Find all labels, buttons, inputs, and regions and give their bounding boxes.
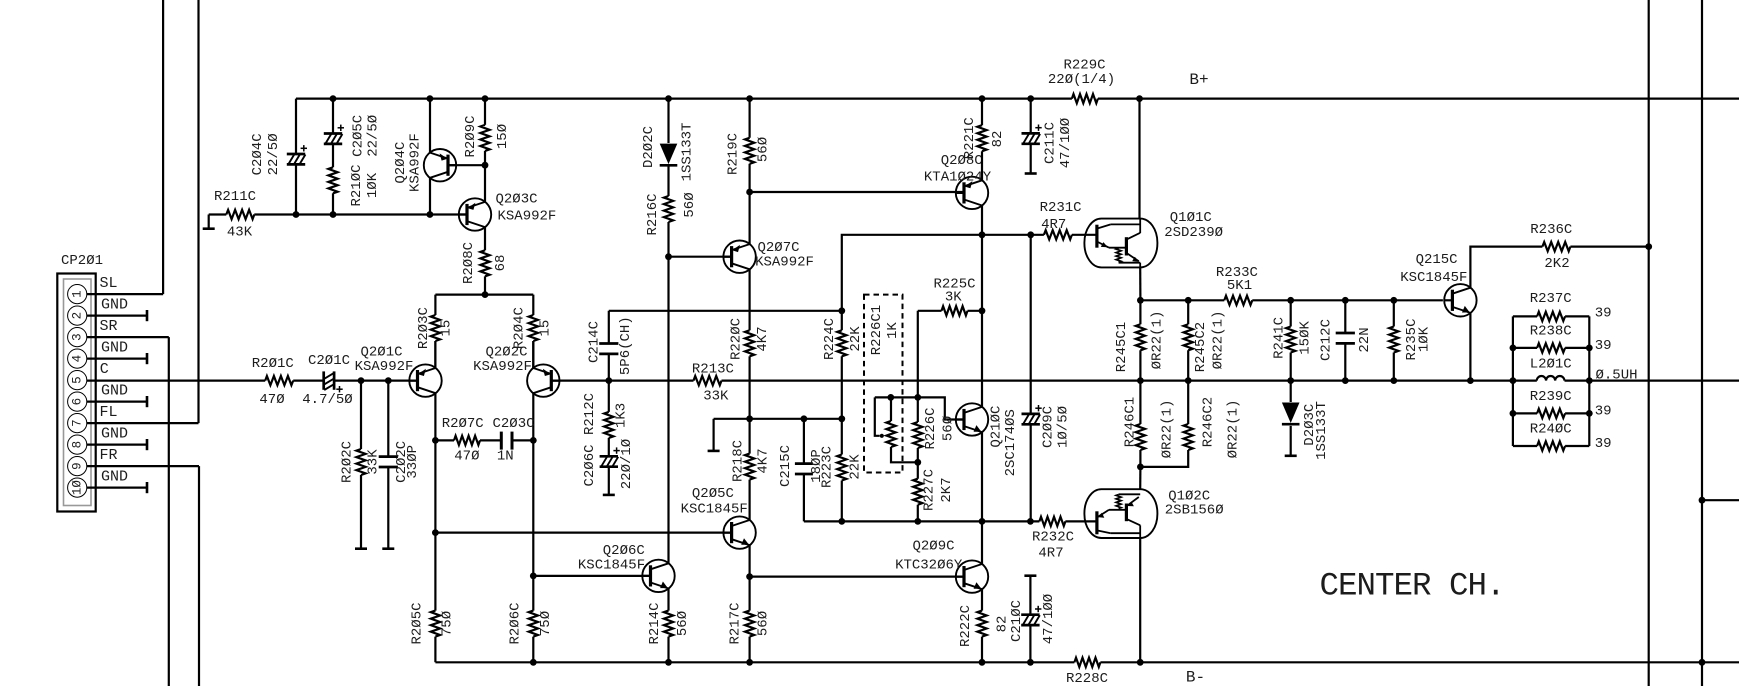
pin 3 label SR bbox=[99, 318, 117, 335]
svg-text:Q2Ø3C: Q2Ø3C bbox=[495, 192, 537, 208]
svg-text:R218C: R218C bbox=[731, 440, 747, 482]
svg-text:C215C: C215C bbox=[778, 445, 794, 487]
wire pin5 C input bbox=[87, 380, 265, 382]
node Q206C base bbox=[530, 573, 537, 580]
node bus Q204C bbox=[427, 95, 434, 102]
wire Q210C emitter bbox=[981, 432, 983, 521]
svg-text:R232C: R232C bbox=[1032, 530, 1074, 546]
node Q208C collector row bbox=[979, 231, 986, 238]
resistor R204C bbox=[512, 295, 554, 369]
wire Q208C collector to R225C bbox=[981, 235, 983, 311]
svg-text:R231C: R231C bbox=[1040, 200, 1082, 216]
resistor R210C bbox=[328, 164, 381, 206]
capacitor C212C bbox=[1318, 300, 1373, 380]
node Q102C emitter bbox=[1137, 464, 1144, 471]
wire B+ top bus bbox=[296, 97, 1739, 99]
resistor R227C bbox=[913, 462, 955, 521]
node rail R217C bbox=[746, 659, 753, 666]
wire C215C R223C top bbox=[750, 418, 842, 420]
wire C214C top bbox=[609, 310, 842, 312]
svg-text:R223C: R223C bbox=[819, 446, 835, 488]
svg-text:R211C: R211C bbox=[214, 189, 256, 205]
node C215C top bbox=[801, 415, 808, 422]
node rail right bbox=[1699, 659, 1706, 666]
svg-text:C2Ø9C: C2Ø9C bbox=[1041, 406, 1057, 448]
wire right vertical 2 bbox=[1701, 0, 1703, 686]
capacitor C206C bbox=[582, 439, 635, 495]
node network right R238C bbox=[1586, 345, 1593, 352]
node C214C wire R224C bbox=[838, 307, 845, 314]
resistor R216C bbox=[645, 166, 698, 257]
trimmer R226C1 box bbox=[864, 295, 903, 473]
node rail R214C bbox=[665, 659, 672, 666]
svg-text:R214C: R214C bbox=[647, 602, 663, 644]
resistor R214C bbox=[647, 588, 691, 662]
svg-text:R213C: R213C bbox=[692, 361, 734, 377]
wire pin3 SR to vertical bbox=[87, 336, 169, 338]
svg-text:8: 8 bbox=[71, 441, 85, 449]
svg-text:GND: GND bbox=[101, 340, 128, 357]
svg-text:33ØP: 33ØP bbox=[405, 445, 421, 479]
wire R207C to C203C bbox=[480, 439, 501, 441]
resistor R222C bbox=[958, 589, 1010, 662]
svg-text:KTC32Ø6Y: KTC32Ø6Y bbox=[895, 557, 963, 573]
svg-text:39: 39 bbox=[1595, 306, 1612, 322]
wire Q204C emitter bbox=[429, 99, 431, 153]
capacitor C209C bbox=[1022, 235, 1072, 522]
capacitor C204C bbox=[250, 133, 307, 175]
capacitor C205C bbox=[324, 115, 382, 157]
svg-text:2K7: 2K7 bbox=[939, 477, 955, 502]
svg-text:KSA992F: KSA992F bbox=[355, 359, 414, 375]
resistor R203C bbox=[416, 295, 455, 369]
svg-text:68: 68 bbox=[493, 255, 509, 272]
svg-text:1K3: 1K3 bbox=[614, 403, 630, 428]
wire Q206C collector bbox=[667, 257, 669, 564]
svg-text:56Ø: 56Ø bbox=[941, 416, 957, 441]
svg-text:ØR22(1): ØR22(1) bbox=[1210, 311, 1226, 370]
svg-text:47/1ØØ: 47/1ØØ bbox=[1041, 594, 1057, 644]
node R219C bottom bbox=[746, 189, 753, 196]
svg-text:15: 15 bbox=[439, 320, 455, 337]
transistor Q209C bbox=[895, 539, 988, 593]
connector CP201 body bbox=[57, 274, 95, 512]
wire network left vertical bbox=[1512, 316, 1514, 446]
svg-text:Q215C: Q215C bbox=[1416, 252, 1458, 268]
connector CP201 label bbox=[61, 253, 103, 269]
wire Q202C emitter bbox=[532, 393, 534, 440]
svg-text:5: 5 bbox=[71, 376, 85, 384]
node rail Q102C bbox=[1137, 659, 1144, 666]
node R245C2 top bbox=[1185, 297, 1192, 304]
transistor Q201C bbox=[355, 345, 442, 397]
capacitor C211C bbox=[1022, 99, 1075, 174]
svg-text:C21ØC: C21ØC bbox=[1009, 600, 1025, 642]
resistor R202C bbox=[339, 381, 381, 549]
svg-text:1K: 1K bbox=[885, 322, 901, 339]
svg-text:KSC1845F: KSC1845F bbox=[578, 557, 645, 573]
node R211C row C204C bbox=[293, 211, 300, 218]
svg-text:KSC1845F: KSC1845F bbox=[1400, 270, 1467, 286]
svg-text:GND: GND bbox=[101, 297, 128, 314]
svg-text:4R7: 4R7 bbox=[1041, 217, 1066, 233]
svg-text:SL: SL bbox=[99, 275, 117, 292]
transistor Q207C bbox=[723, 240, 814, 273]
ground stub near Q205C bbox=[708, 419, 720, 451]
svg-text:R22ØC: R22ØC bbox=[729, 318, 745, 360]
pin 3 bbox=[68, 328, 87, 347]
resistor R206C bbox=[508, 440, 555, 662]
wire Q205C emitter to Q209C base bbox=[750, 575, 964, 577]
transistor Q210C bbox=[956, 403, 1019, 476]
node bus D202C bbox=[665, 95, 672, 102]
wire R225C left drop bbox=[917, 311, 919, 398]
pin 10 bbox=[68, 478, 87, 497]
inductor L201C bbox=[1530, 356, 1638, 383]
node R207C left bbox=[432, 437, 439, 444]
node right stub bbox=[1699, 497, 1706, 504]
resistor R209C bbox=[463, 99, 511, 166]
svg-text:R217C: R217C bbox=[728, 602, 744, 644]
node rail R222C bbox=[979, 659, 986, 666]
svg-text:C: C bbox=[100, 361, 109, 378]
svg-text:47Ø: 47Ø bbox=[259, 392, 284, 408]
wire pin10 GND stub bbox=[87, 482, 147, 493]
svg-text:CENTER CH.: CENTER CH. bbox=[1319, 568, 1504, 605]
svg-text:7: 7 bbox=[71, 419, 85, 427]
svg-text:R228C: R228C bbox=[1066, 671, 1108, 686]
wire Q207C base bbox=[669, 256, 732, 258]
resistor R223C bbox=[819, 419, 863, 522]
svg-text:R2Ø1C: R2Ø1C bbox=[252, 356, 294, 372]
capacitor C210C bbox=[1009, 576, 1057, 663]
wire Q205C emitter bbox=[748, 545, 750, 576]
wire Q204C base bbox=[448, 164, 485, 166]
wire FL vertical bbox=[197, 0, 199, 423]
svg-text:56Ø: 56Ø bbox=[756, 611, 772, 636]
svg-text:R216C: R216C bbox=[645, 193, 661, 235]
node rail C212C bbox=[1342, 377, 1349, 384]
node R225C right bbox=[979, 307, 986, 314]
svg-text:22K: 22K bbox=[848, 326, 864, 352]
node rail Q215C bbox=[1467, 377, 1474, 384]
trimmer R226C1 bbox=[869, 305, 918, 463]
svg-text:4.7/5Ø: 4.7/5Ø bbox=[302, 392, 352, 408]
svg-text:82: 82 bbox=[990, 131, 1006, 148]
wire R218C top bbox=[714, 418, 750, 420]
svg-text:22K: 22K bbox=[848, 454, 864, 480]
svg-text:FL: FL bbox=[99, 404, 117, 421]
svg-text:GND: GND bbox=[101, 426, 128, 443]
resistor R238C bbox=[1513, 324, 1612, 354]
node bus R221C bbox=[979, 95, 986, 102]
wire R211C row bbox=[209, 213, 468, 215]
wire pin7 FL to vertical bbox=[87, 422, 199, 424]
wire R203C R204C top row bbox=[435, 294, 533, 296]
capacitor C214C bbox=[587, 311, 634, 381]
svg-text:22/5Ø: 22/5Ø bbox=[266, 133, 282, 175]
wire R219C to Q208C base bbox=[750, 191, 964, 193]
svg-text:R221C: R221C bbox=[962, 117, 978, 159]
svg-text:4K7: 4K7 bbox=[756, 448, 772, 473]
wire VAS to driver bbox=[842, 235, 1097, 311]
node bus R209C bbox=[482, 95, 489, 102]
wire pin8 GND stub bbox=[87, 439, 147, 450]
svg-text:2K2: 2K2 bbox=[1544, 256, 1569, 272]
wire Q209C collector bbox=[981, 521, 983, 564]
resistor R246C1 bbox=[1122, 381, 1175, 467]
pin 6 bbox=[68, 392, 87, 411]
wire network right vertical bbox=[1588, 316, 1590, 446]
svg-text:R2Ø2C: R2Ø2C bbox=[339, 441, 355, 483]
wire pin9 FR to vertical bbox=[87, 465, 199, 467]
wire Q201C emitter bbox=[434, 393, 436, 532]
svg-text:KSA992F: KSA992F bbox=[755, 255, 814, 271]
wire Q202C base to rail bbox=[551, 380, 609, 382]
resistor R220C bbox=[729, 318, 771, 419]
svg-text:R239C: R239C bbox=[1530, 389, 1572, 405]
pin 9 bbox=[68, 457, 87, 476]
svg-text:R2Ø6C: R2Ø6C bbox=[508, 602, 524, 644]
transistor Q206C bbox=[578, 543, 675, 592]
transistor Q205C bbox=[681, 486, 756, 549]
node trimmer top bbox=[887, 394, 894, 401]
svg-text:1Ø/5Ø: 1Ø/5Ø bbox=[1056, 406, 1072, 448]
wire FR vertical bbox=[198, 466, 200, 686]
node network left L201C bbox=[1510, 377, 1517, 384]
resistor R237C bbox=[1513, 291, 1612, 322]
node R211C row R210C bbox=[330, 211, 337, 218]
svg-text:22Ø/1Ø: 22Ø/1Ø bbox=[619, 439, 635, 489]
resistor R201C bbox=[252, 356, 294, 408]
svg-text:R245C2: R245C2 bbox=[1193, 322, 1209, 372]
wire Q203C emitter bbox=[484, 165, 486, 202]
resistor R212C bbox=[582, 381, 629, 457]
wire pin6 GND stub bbox=[87, 396, 147, 407]
svg-text:75Ø: 75Ø bbox=[440, 611, 456, 636]
svg-text:5P6(CH): 5P6(CH) bbox=[618, 316, 634, 375]
svg-text:56Ø: 56Ø bbox=[682, 192, 698, 217]
pin 2 label GND bbox=[101, 297, 128, 314]
svg-text:1SS133T: 1SS133T bbox=[1314, 401, 1330, 460]
wire to R233C bbox=[1188, 299, 1443, 301]
wire trimmer top bbox=[875, 397, 964, 419]
wire Q101C emitter bbox=[1139, 267, 1141, 300]
resistor R217C bbox=[728, 577, 772, 663]
node network right R239C bbox=[1586, 410, 1593, 417]
svg-text:KSA992F: KSA992F bbox=[497, 209, 556, 225]
transistor Q204C bbox=[393, 133, 456, 192]
wire Q204C collector bbox=[429, 178, 431, 215]
svg-text:C2Ø6C: C2Ø6C bbox=[582, 444, 598, 486]
transistor Q203C bbox=[459, 192, 557, 231]
svg-text:1: 1 bbox=[71, 290, 85, 298]
svg-text:Ø.5UH: Ø.5UH bbox=[1595, 368, 1637, 384]
svg-text:R224C: R224C bbox=[822, 318, 838, 360]
label B- bbox=[1186, 669, 1205, 686]
svg-text:R24ØC: R24ØC bbox=[1530, 422, 1572, 438]
node row R223C bbox=[838, 518, 845, 525]
svg-text:R219C: R219C bbox=[726, 133, 742, 175]
svg-text:GND: GND bbox=[101, 383, 128, 400]
node R209C Q204C bbox=[482, 162, 489, 169]
svg-text:R21ØC: R21ØC bbox=[349, 164, 365, 206]
wire Q102C collector to B- bbox=[1139, 538, 1141, 662]
svg-text:SR: SR bbox=[99, 318, 117, 335]
node rail R206C bbox=[530, 659, 537, 666]
node network left R239C bbox=[1510, 410, 1517, 417]
svg-text:1ØK: 1ØK bbox=[1416, 326, 1432, 352]
pin 8 bbox=[68, 435, 87, 454]
svg-text:D2Ø2C: D2Ø2C bbox=[641, 126, 657, 168]
wire emitter node row bbox=[1140, 299, 1188, 301]
svg-text:CP2Ø1: CP2Ø1 bbox=[61, 253, 103, 269]
svg-text:56Ø: 56Ø bbox=[756, 137, 772, 162]
resistor R219C bbox=[726, 99, 772, 192]
resistor R224C bbox=[822, 311, 864, 419]
pin 7 bbox=[68, 414, 87, 433]
node R235C top bbox=[1390, 297, 1397, 304]
resistor R241C bbox=[1271, 300, 1313, 380]
node bus R219C bbox=[746, 95, 753, 102]
label B+ bbox=[1189, 71, 1208, 89]
resistor R211C bbox=[214, 189, 256, 241]
svg-text:B+: B+ bbox=[1189, 71, 1208, 89]
svg-text:2SB156Ø: 2SB156Ø bbox=[1165, 502, 1224, 518]
node R223C top bbox=[838, 415, 845, 422]
svg-text:R246C1: R246C1 bbox=[1122, 397, 1138, 447]
svg-text:75Ø: 75Ø bbox=[538, 611, 554, 636]
node R236C right bbox=[1645, 243, 1652, 250]
transistor Q202C bbox=[473, 345, 559, 397]
resistor R229C bbox=[1048, 58, 1115, 104]
node C203C right bbox=[530, 437, 537, 444]
node row R227C bbox=[914, 518, 921, 525]
resistor R205C bbox=[409, 533, 455, 663]
svg-text:4R7: 4R7 bbox=[1038, 546, 1063, 562]
svg-text:4: 4 bbox=[71, 355, 85, 363]
resistor R236C bbox=[1530, 222, 1572, 272]
svg-text:2: 2 bbox=[71, 312, 85, 320]
svg-text:ØR22(1): ØR22(1) bbox=[1225, 400, 1241, 459]
node R218C top bbox=[746, 415, 753, 422]
wire emitter row left bbox=[435, 439, 454, 441]
svg-text:KSC1845F: KSC1845F bbox=[681, 501, 748, 517]
wire C201C to Q201C bbox=[334, 380, 417, 382]
wire Q101C collector to B+ bbox=[1138, 99, 1140, 219]
svg-text:R2Ø4C: R2Ø4C bbox=[512, 307, 528, 349]
wire bottom rail B- bbox=[435, 661, 1739, 663]
pin 1 bbox=[68, 285, 87, 304]
svg-text:R226C1: R226C1 bbox=[869, 305, 885, 355]
capacitor C203C bbox=[492, 416, 534, 464]
svg-text:56Ø: 56Ø bbox=[675, 611, 691, 636]
resistor R232C bbox=[1032, 517, 1074, 562]
svg-text:Q2Ø5C: Q2Ø5C bbox=[692, 486, 734, 502]
node R226C top bbox=[914, 394, 921, 401]
resistor R218C bbox=[731, 419, 772, 520]
resistor R221C bbox=[962, 99, 1006, 181]
wire Q201C collector bbox=[434, 341, 436, 368]
wire right vertical 1 bbox=[1648, 0, 1650, 686]
svg-text:47Ø: 47Ø bbox=[454, 448, 479, 464]
node row C209C bbox=[1027, 518, 1034, 525]
pin 2 bbox=[68, 306, 87, 325]
resistor R246C2 bbox=[1140, 381, 1241, 467]
svg-text:ØR22(1): ØR22(1) bbox=[1150, 311, 1166, 370]
wire Q207C emitter bbox=[748, 192, 750, 244]
svg-text:3: 3 bbox=[71, 333, 85, 341]
pin 9 label FR bbox=[99, 447, 117, 464]
node R241C top bbox=[1287, 297, 1294, 304]
svg-text:43K: 43K bbox=[227, 225, 253, 241]
svg-text:1Ø: 1Ø bbox=[71, 480, 85, 496]
svg-text:15Ø: 15Ø bbox=[495, 124, 511, 149]
wire Q202C collector bbox=[532, 341, 534, 368]
wire Q207C collector bbox=[748, 269, 750, 330]
svg-text:R241C: R241C bbox=[1271, 317, 1287, 359]
svg-text:Q2Ø9C: Q2Ø9C bbox=[912, 539, 954, 555]
svg-text:2SC174ØS: 2SC174ØS bbox=[1003, 409, 1019, 476]
svg-text:C211C: C211C bbox=[1042, 122, 1058, 164]
resistor R245C2 bbox=[1184, 300, 1227, 380]
resistor R208C bbox=[461, 242, 509, 295]
svg-text:1N: 1N bbox=[497, 448, 514, 464]
wire Q203C collector bbox=[484, 227, 486, 250]
wire Q215C emitter bbox=[1469, 313, 1471, 381]
resistor R207C bbox=[442, 416, 484, 464]
svg-text:R2Ø3C: R2Ø3C bbox=[416, 307, 432, 349]
node bus C205C bbox=[330, 95, 337, 102]
diode D202C bbox=[641, 99, 696, 182]
svg-text:L2Ø1C: L2Ø1C bbox=[1530, 356, 1572, 372]
svg-text:R236C: R236C bbox=[1530, 222, 1572, 238]
svg-text:ØR22(1): ØR22(1) bbox=[1160, 400, 1176, 459]
resistor R235C bbox=[1389, 300, 1432, 380]
node bus C211C bbox=[1027, 95, 1034, 102]
wire driver base row bbox=[804, 520, 1097, 522]
svg-text:15: 15 bbox=[538, 320, 554, 337]
node C202C top bbox=[385, 377, 392, 384]
node row Q210C bbox=[979, 518, 986, 525]
node rail C210C bbox=[1027, 659, 1034, 666]
svg-text:R2Ø8C: R2Ø8C bbox=[461, 242, 477, 284]
node rail R245C2 bbox=[1185, 377, 1192, 384]
svg-text:FR: FR bbox=[99, 447, 117, 464]
node R216C Q207C bbox=[665, 253, 672, 260]
pin 5 label C bbox=[100, 361, 109, 378]
svg-text:Q1Ø1C: Q1Ø1C bbox=[1170, 210, 1212, 226]
node R226C1 bottom bbox=[914, 459, 921, 466]
wire Q201C emitter to Q205C base bbox=[435, 531, 731, 533]
node R202C top bbox=[358, 377, 365, 384]
svg-text:C212C: C212C bbox=[1318, 319, 1334, 361]
svg-text:39: 39 bbox=[1595, 403, 1612, 419]
ground R211C bbox=[203, 215, 215, 229]
svg-text:39: 39 bbox=[1595, 436, 1612, 452]
svg-text:R237C: R237C bbox=[1530, 291, 1572, 307]
svg-text:C2Ø1C: C2Ø1C bbox=[308, 353, 350, 369]
svg-text:33K: 33K bbox=[366, 449, 382, 475]
wire Q206C base bbox=[533, 575, 650, 577]
diode D203C bbox=[1282, 381, 1330, 460]
capacitor C215C bbox=[778, 419, 825, 522]
svg-text:4K7: 4K7 bbox=[755, 326, 771, 351]
resistor R231C bbox=[1040, 200, 1082, 239]
wire Q210C collector bbox=[981, 311, 983, 407]
transistor Q101C bbox=[1084, 210, 1223, 268]
resistor R228C bbox=[1066, 658, 1108, 686]
